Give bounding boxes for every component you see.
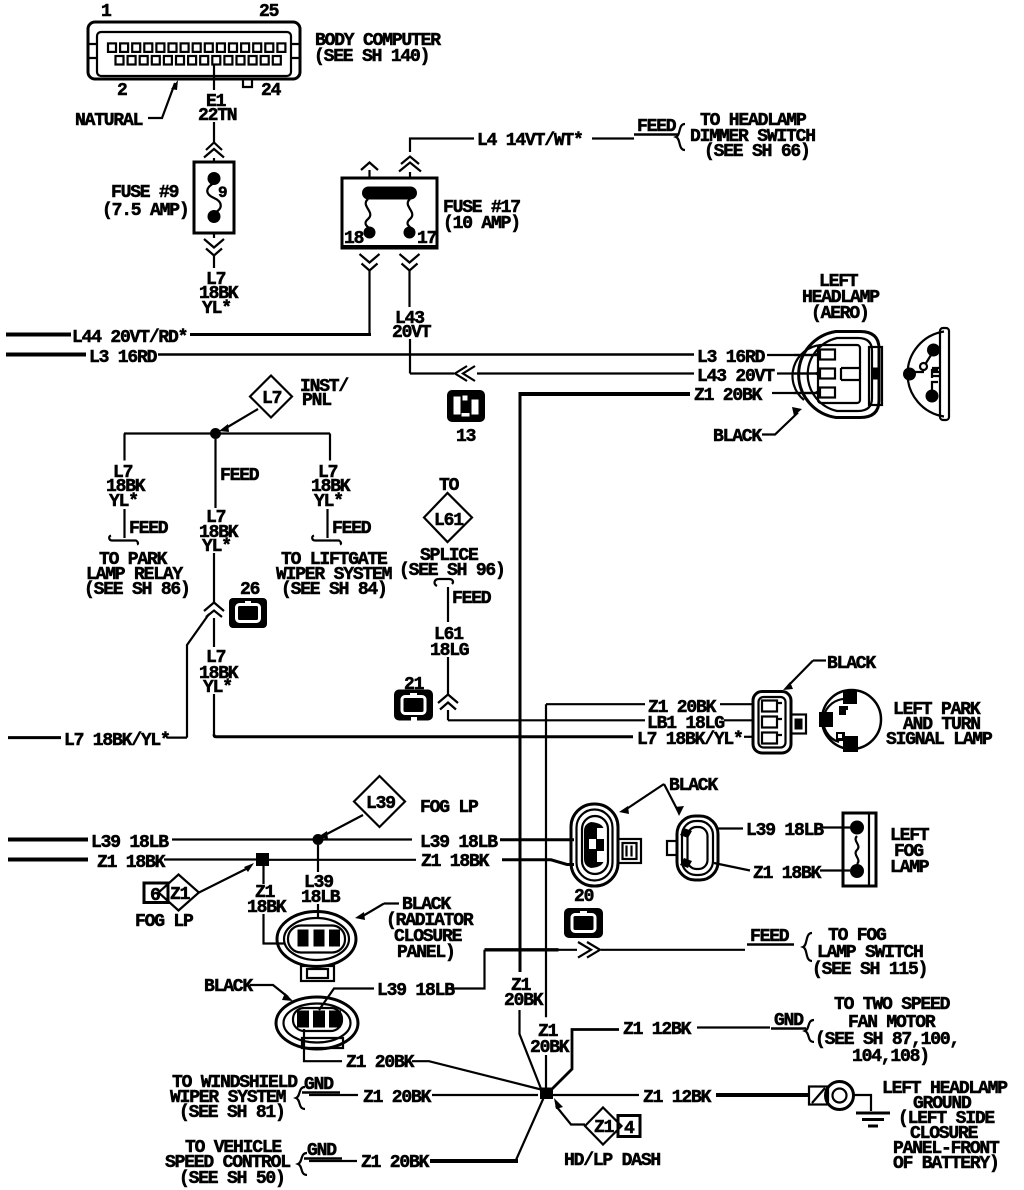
wires into headlamp connector	[794, 355, 818, 393]
svg-text:(SEE SH 96): (SEE SH 96)	[399, 561, 505, 581]
wire Z1 12BK to headlamp ground	[553, 1094, 639, 1096]
svg-text:2: 2	[117, 81, 127, 101]
wire Z1 20BK vertical from park/turn	[545, 704, 547, 1017]
in-line connector symbols above fuse 17	[361, 163, 378, 171]
svg-text:18BK: 18BK	[247, 898, 287, 918]
feed symbol park lamp relay	[109, 536, 138, 545]
box 6 FOG LP	[144, 883, 168, 903]
svg-text:TO: TO	[439, 476, 460, 496]
svg-text:17: 17	[417, 229, 437, 249]
feed symbol splice	[435, 579, 453, 586]
lamp socket left park and turn signal	[819, 690, 881, 752]
svg-text:FEED: FEED	[220, 466, 260, 486]
svg-text:20BK: 20BK	[530, 1038, 570, 1058]
wire L43 horizontal to headlamp	[410, 372, 454, 374]
svg-text:FUSE #9: FUSE #9	[111, 183, 179, 203]
connector left park/turn signal lamp	[753, 692, 806, 754]
leader BLACK (RADIATOR CLOSURE PANEL)	[362, 904, 399, 917]
in-line connector 13 chevrons on L43	[455, 366, 475, 381]
leader from L39 diamond to junction	[325, 815, 363, 835]
wire Z1 18BK horizontal	[8, 858, 88, 862]
junction square on Z1 18BK	[256, 853, 269, 866]
svg-text:4: 4	[624, 1119, 635, 1139]
svg-text:(SEE SH 86): (SEE SH 86)	[84, 580, 190, 600]
left branch wire L7 to park lamp relay	[123, 434, 125, 461]
in-line connector 20 chevrons on L39	[578, 942, 600, 958]
svg-text:L39 18LB: L39 18LB	[91, 833, 169, 853]
svg-text:Z1 18BK: Z1 18BK	[421, 852, 490, 872]
svg-text:L7 18BK/YL*: L7 18BK/YL*	[64, 731, 170, 751]
bulb left headlamp	[903, 328, 949, 420]
svg-text:18LG: 18LG	[430, 641, 469, 661]
svg-text:(SEE SH 140): (SEE SH 140)	[314, 47, 429, 67]
svg-text:1: 1	[101, 2, 112, 22]
svg-text:L39: L39	[366, 794, 395, 814]
svg-text:Z1 18BK: Z1 18BK	[753, 864, 822, 884]
svg-text:Z1 18BK: Z1 18BK	[97, 853, 166, 873]
svg-text:20: 20	[574, 887, 594, 907]
connector C1 body computer outline	[88, 22, 300, 87]
svg-text:L7 18BK/YL*: L7 18BK/YL*	[637, 730, 743, 750]
wire Z1 12BK to fan motor	[552, 1030, 619, 1090]
connector fog lamp mate oval 2	[667, 816, 718, 880]
svg-text:FEED: FEED	[452, 589, 492, 609]
svg-text:PANEL): PANEL)	[397, 943, 455, 963]
leader BLACK to park/turn connector	[813, 659, 826, 661]
svg-text:(SEE SH 81): (SEE SH 81)	[179, 1103, 285, 1123]
svg-text:24: 24	[261, 81, 282, 101]
box 4 HD/LP DASH	[618, 1116, 640, 1137]
wire Z1 20BK to headlamp	[520, 392, 690, 396]
wire L39 18LB to left fog lamp	[718, 827, 743, 829]
wire L39 18LB horizontal	[8, 838, 88, 842]
svg-text:6: 6	[150, 886, 160, 906]
svg-text:SIGNAL LAMP: SIGNAL LAMP	[886, 730, 993, 750]
wire Z1 20BK from lower fog connector to junction	[304, 1029, 342, 1061]
wire L39 18LB drop to radiator connector	[317, 845, 319, 872]
svg-text:20VT: 20VT	[392, 323, 432, 343]
wire from fuse 17 pin 18 down to L44	[368, 270, 370, 334]
svg-text:18: 18	[344, 229, 364, 249]
svg-text:26: 26	[240, 580, 260, 600]
svg-text:L39 18LB: L39 18LB	[377, 981, 455, 1001]
wire branch horizontal at junction	[124, 432, 330, 434]
svg-text:(AERO): (AERO)	[811, 304, 869, 324]
svg-text:HD/LP DASH: HD/LP DASH	[564, 1151, 660, 1171]
svg-text:22TN: 22TN	[198, 106, 237, 126]
right branch wire L7 to liftgate	[329, 434, 331, 461]
wire Z1 20BK long vertical from headlamp	[519, 392, 522, 972]
fuse F17	[342, 178, 437, 249]
in-line connector symbols below fuse 17	[360, 254, 380, 271]
svg-text:(10 AMP): (10 AMP)	[443, 214, 520, 234]
wire LB1 18LG to park/turn lamp	[448, 719, 645, 721]
svg-text:L43 20VT: L43 20VT	[697, 367, 775, 387]
svg-text:25: 25	[259, 2, 279, 22]
fuse F9	[194, 162, 234, 233]
wire Z1 20BK windshield to junction	[309, 1094, 358, 1096]
wire L7 18BK/YL* to park/turn lamp	[214, 735, 633, 737]
svg-text:(SEE SH 84): (SEE SH 84)	[281, 580, 387, 600]
in-line connector symbol below fuse 9	[213, 233, 215, 238]
leader from diamond to junction	[226, 409, 258, 428]
junction node A	[210, 428, 221, 439]
svg-text:13: 13	[456, 427, 476, 447]
wire L61 18LG down to connector 21	[447, 587, 449, 622]
svg-text:9: 9	[218, 184, 227, 202]
wire from fuse 17 pin 17 down (L43 20VT)	[408, 270, 410, 307]
connector C1 pins row 1	[108, 43, 285, 52]
leader to HD/LP DASH diamond	[556, 1106, 585, 1125]
wire L7 below fuse 9	[213, 256, 215, 268]
svg-text:20BK: 20BK	[504, 991, 544, 1011]
svg-text:(SEE SH 50): (SEE SH 50)	[179, 1169, 285, 1189]
leader from Z1 diamond to Z1 18BK square	[199, 868, 248, 893]
svg-text:BLACK: BLACK	[204, 977, 253, 997]
svg-text:BLACK: BLACK	[713, 427, 762, 447]
svg-text:YL*: YL*	[203, 678, 232, 698]
svg-text:LAMP: LAMP	[890, 858, 930, 878]
svg-text:18LB: 18LB	[301, 888, 341, 908]
wire Z1 18BK to left fog lamp	[714, 863, 750, 871]
diamond Z1 HD/LP DASH	[585, 1108, 622, 1145]
svg-text:TO TWO SPEED: TO TWO SPEED	[834, 995, 951, 1015]
svg-text:L39 18LB: L39 18LB	[420, 833, 498, 853]
svg-text:L7: L7	[262, 389, 282, 409]
diamond Z1 FOG LP	[159, 875, 199, 911]
wire Z1 20BK vehicle speed to junction	[309, 1160, 357, 1162]
svg-text:L3 16RD: L3 16RD	[89, 348, 158, 368]
junction node C star	[540, 1088, 553, 1100]
svg-text:Z1 20BK: Z1 20BK	[694, 386, 763, 406]
svg-text:Z1 20BK: Z1 20BK	[363, 1088, 432, 1108]
in-line connector 21 chevron	[438, 695, 458, 710]
in-line connector symbol (chevrons) above fuse 9	[204, 143, 224, 158]
svg-text:YL*: YL*	[202, 537, 231, 557]
diamond L39 FOG LP	[354, 776, 405, 827]
svg-text:104,108): 104,108)	[852, 1047, 929, 1067]
diamond L7 INST/PNL	[250, 376, 292, 418]
left fog lamp	[843, 813, 876, 886]
svg-text:BLACK: BLACK	[669, 776, 718, 796]
svg-text:L3 16RD: L3 16RD	[697, 348, 766, 368]
connector icon 13	[447, 390, 485, 422]
svg-text:Z1: Z1	[170, 885, 191, 905]
svg-text:Z1 12BK: Z1 12BK	[623, 1020, 692, 1040]
svg-text:BLACK: BLACK	[827, 654, 876, 674]
svg-text:NATURAL: NATURAL	[75, 111, 143, 131]
connector fog lamp jumper (black) lower	[276, 997, 358, 1049]
wire L3 16RD horizontal	[6, 353, 86, 357]
svg-text:FOG LP: FOG LP	[135, 912, 194, 932]
svg-text:(7.5 AMP): (7.5 AMP)	[102, 201, 188, 221]
svg-text:(SEE SH 66): (SEE SH 66)	[704, 142, 810, 162]
connector fog lamp harness oval 1 (black)	[571, 804, 641, 886]
svg-text:L4 14VT/WT*: L4 14VT/WT*	[477, 131, 583, 151]
svg-text:Z1 20BK: Z1 20BK	[361, 1153, 430, 1173]
ring terminal eyelet	[809, 1082, 854, 1110]
feed symbol liftgate	[312, 536, 341, 545]
svg-text:OF BATTERY): OF BATTERY)	[893, 1154, 999, 1174]
wire L44 20VT/RD* horizontal	[6, 333, 71, 337]
svg-text:L39 18LB: L39 18LB	[746, 821, 824, 841]
connector C1 pins row 2	[116, 56, 281, 65]
svg-text:FEED: FEED	[129, 519, 169, 539]
svg-text:L61: L61	[434, 511, 464, 531]
junction node B on L39 wire	[313, 834, 324, 845]
svg-text:FEED: FEED	[332, 519, 372, 539]
wire E1 22TN from pin 11	[213, 65, 215, 142]
svg-text:Z1: Z1	[594, 1118, 615, 1138]
connector left headlamp (aero)	[792, 332, 882, 418]
wire Z1 20BK to park/turn lamp	[546, 703, 645, 705]
svg-text:FOG LP: FOG LP	[420, 798, 479, 818]
ground symbol left headlamp ground	[856, 1113, 890, 1126]
in-line connector 26 chevron	[204, 603, 224, 618]
svg-text:Z1 20BK: Z1 20BK	[346, 1053, 415, 1073]
wire L7 18BK/YL* left stub	[8, 736, 61, 739]
connector radiator closure panel (black)	[277, 912, 356, 982]
svg-text:YL*: YL*	[202, 299, 231, 319]
wire L4 horizontal to dimmer switch	[410, 139, 474, 153]
wire L39 18LB from lower connector to fog lamp switch	[319, 989, 374, 1011]
svg-text:PNL: PNL	[302, 391, 331, 411]
svg-text:(SEE SH 115): (SEE SH 115)	[812, 960, 927, 980]
svg-text:L44 20VT/RD*: L44 20VT/RD*	[72, 328, 187, 348]
svg-text:Z1 12BK: Z1 12BK	[643, 1088, 712, 1108]
